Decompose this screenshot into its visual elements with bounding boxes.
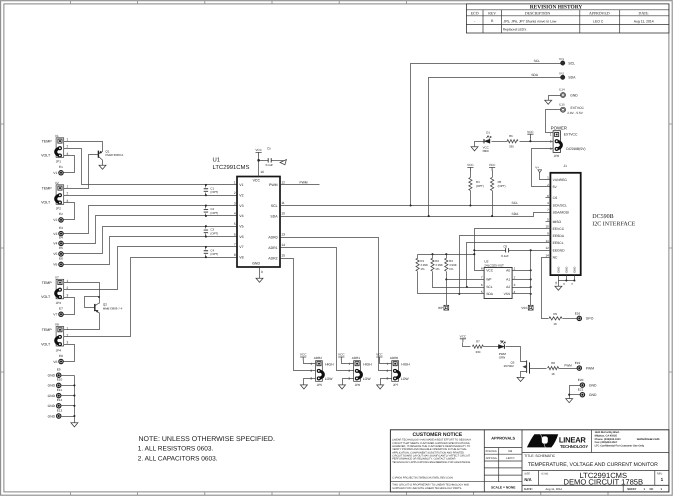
VCC symbol at U1: [255, 148, 262, 156]
wire JP1 pin3 to turret E1: [64, 156, 75, 173]
svg-text:TECHNOLOGY: TECHNOLOGY: [560, 444, 588, 449]
svg-text:TECHNOLOGY APPLICATIONS ENGINE: TECHNOLOGY APPLICATIONS ENGINEERING FOR …: [392, 461, 471, 464]
svg-text:GND: GND: [48, 384, 56, 388]
title block frame: [390, 430, 669, 492]
wire VCC to JP7 pin1: [380, 361, 392, 364]
svg-text:E10: E10: [57, 378, 63, 382]
svg-text:DESCRIPTION: DESCRIPTION: [525, 12, 550, 16]
svg-text:(OPT): (OPT): [210, 190, 218, 194]
svg-text:V1: V1: [55, 134, 59, 138]
wire JP4 pin3 to turret E8: [64, 345, 75, 362]
svg-text:REV.: REV.: [657, 472, 663, 475]
svg-text:VOLT: VOLT: [41, 342, 51, 346]
wire gnd turret to bus: [61, 416, 75, 418]
wire J1 pin14 to R9: [542, 258, 551, 319]
junction SDA riser: [428, 215, 430, 217]
svg-text:WP: WP: [486, 278, 492, 282]
svg-text:VCC: VCC: [338, 353, 345, 357]
svg-text:V4: V4: [53, 242, 57, 246]
svg-text:GND: GND: [252, 262, 260, 266]
svg-text:ADR2: ADR2: [314, 356, 323, 360]
svg-text:16: 16: [260, 170, 264, 174]
junction gnd bus: [73, 405, 75, 407]
svg-text:REVISION HISTORY: REVISION HISTORY: [530, 5, 583, 11]
svg-text:OF: OF: [650, 487, 654, 491]
svg-text:2: 2: [547, 183, 549, 187]
svg-text:E2: E2: [59, 212, 63, 216]
junction Q2 node: [98, 296, 100, 298]
svg-text:U1: U1: [213, 157, 221, 164]
wire R4 to SCL: [470, 191, 472, 206]
svg-text:E1: E1: [59, 165, 63, 169]
svg-text:7: 7: [481, 276, 483, 280]
svg-text:1: 1: [547, 176, 549, 180]
resistor rail R1 R2 R3: [418, 254, 475, 256]
svg-text:SDA: SDA: [531, 73, 539, 77]
svg-text:A0: A0: [506, 269, 510, 273]
wire VCC to R7: [463, 343, 471, 347]
wire WP test point drop: [446, 280, 448, 306]
wire SDA riser to top: [429, 78, 561, 217]
wire JP3 pin1 to Q2 node: [64, 283, 100, 297]
svg-text:E21: E21: [578, 388, 584, 392]
svg-text:2: 2: [234, 191, 236, 195]
svg-text:JP5: JP5: [317, 383, 323, 387]
ground below J1: [555, 286, 562, 290]
svg-text:SDA/MOSI: SDA/MOSI: [553, 210, 569, 214]
turret E9 GND: [48, 368, 61, 378]
svg-text:ADR0: ADR0: [268, 235, 277, 239]
svg-text:SUPPLIED FOR USE WITH LINEAR T: SUPPLIED FOR USE WITH LINEAR TECHNOLOGY …: [392, 487, 462, 490]
svg-text:E20: E20: [578, 378, 584, 382]
VCC at JP6: [338, 353, 345, 361]
svg-text:APP ENG.: APP ENG.: [486, 457, 498, 460]
svg-text:E8: E8: [59, 354, 63, 358]
svg-text:LTC Confidential-For Customer: LTC Confidential-For Customer Use Only: [595, 445, 645, 448]
svg-text:POWER: POWER: [551, 126, 567, 131]
wire/net PWM at U1 pin12: [281, 184, 320, 186]
wire Q1 base from JP2 pin1: [64, 155, 99, 189]
svg-text:D1: D1: [486, 130, 490, 134]
turret E4 (V4 input): [53, 236, 63, 246]
svg-text:2: 2: [67, 145, 69, 149]
capacitor C1 (OPT): [204, 184, 219, 196]
svg-text:TEMP: TEMP: [42, 281, 53, 285]
svg-text:V8: V8: [53, 360, 57, 364]
svg-text:E7: E7: [59, 307, 63, 311]
turret E8: [53, 354, 63, 364]
svg-text:GND: GND: [48, 374, 56, 378]
wire E15 to JP8 pin1: [546, 110, 561, 133]
svg-text:GND: GND: [573, 267, 577, 273]
LED D1 VCC RED: [483, 130, 492, 153]
wire Q2 collector to JP4 pin1: [64, 313, 100, 330]
wire JP7 pin3 to ground: [381, 379, 392, 385]
svg-text:VCC: VCC: [527, 130, 534, 134]
svg-text:1: 1: [550, 133, 552, 137]
wire SDA bus U1 pin10 to J1 pin7: [281, 213, 551, 217]
svg-text:330: 330: [509, 144, 514, 148]
LT logo left swoosh: [527, 434, 545, 447]
wire R5 to SDA: [492, 191, 494, 217]
svg-text:TP2: TP2: [559, 71, 565, 75]
svg-text:LOW: LOW: [325, 377, 334, 381]
svg-text:V3: V3: [53, 232, 57, 236]
svg-text:DATE: DATE: [639, 12, 650, 16]
svg-text:VCC: VCC: [486, 269, 494, 273]
svg-text:JP4: JP4: [56, 348, 62, 352]
wire VSS column: [530, 251, 532, 306]
turret E10 GND: [48, 378, 63, 388]
wire D1 to R6: [492, 141, 508, 143]
svg-text:MISO: MISO: [553, 220, 562, 224]
capacitor C5 0.1uF: [266, 146, 274, 167]
wire JP2 pin3 to turret E2: [64, 203, 75, 220]
ground below Q1: [99, 165, 106, 169]
svg-text:(OPT): (OPT): [210, 231, 218, 235]
wire JP8 pin3 to J1 pin2: [532, 149, 554, 187]
wire JP1 pin2 to U1 V1: [64, 149, 238, 185]
note text: [138, 436, 275, 463]
svg-text:E9: E9: [57, 368, 61, 372]
svg-text:1: 1: [234, 181, 236, 185]
svg-text:SDA: SDA: [270, 214, 278, 218]
svg-text:V5: V5: [239, 225, 243, 229]
svg-text:RED: RED: [483, 149, 489, 153]
wire ADR1 net: [281, 248, 354, 371]
svg-text:IC NO.: IC NO.: [541, 472, 549, 475]
svg-text:8: 8: [481, 266, 483, 270]
svg-text:8: 8: [234, 253, 236, 257]
revision history table: [466, 4, 669, 33]
svg-text:LOW: LOW: [401, 377, 410, 381]
svg-text:VOLT: VOLT: [41, 295, 51, 299]
svg-text:V+: V+: [535, 166, 539, 170]
svg-text:V2: V2: [55, 181, 59, 185]
wire JP3 pin2 to U1 V7: [64, 247, 238, 290]
svg-text:0.1uF: 0.1uF: [501, 254, 509, 258]
linear technology logo: [527, 434, 588, 449]
svg-text:GRN: GRN: [499, 356, 505, 360]
transistor Q2 MMBT3906-7-F: [85, 297, 123, 313]
wire V3 net to U1: [64, 206, 238, 234]
title section: [524, 454, 663, 491]
svg-text:(OPT): (OPT): [498, 184, 506, 188]
ground at C5: [280, 160, 288, 167]
svg-text:JP7: JP7: [393, 383, 399, 387]
svg-text:SCL: SCL: [512, 201, 519, 205]
svg-text:SHEET: SHEET: [627, 487, 637, 491]
svg-text:E4: E4: [59, 236, 63, 240]
wire R2 to U2 SCL line: [433, 272, 485, 288]
connector JP4: [41, 323, 68, 353]
turret E16 GPO: [575, 311, 594, 320]
transistor Q1 PMMT3906TA: [98, 150, 123, 166]
svg-text:VCC: VCC: [253, 179, 261, 183]
svg-text:2. ALL CAPACITORS 0603.: 2. ALL CAPACITORS 0603.: [138, 456, 218, 463]
svg-text:6: 6: [234, 232, 236, 236]
svg-text:V1: V1: [239, 183, 243, 187]
J1 pin stubs CS / MISO: [546, 197, 551, 199]
wires U2 right pins to VSS column: [513, 270, 531, 272]
svg-text:GND: GND: [48, 414, 56, 418]
svg-text:SCL: SCL: [534, 59, 541, 63]
svg-text:V8: V8: [239, 256, 243, 260]
connector J1 DC590B: [545, 164, 580, 275]
svg-text:7: 7: [234, 243, 236, 247]
svg-text:APPROVED: APPROVED: [589, 12, 610, 16]
svg-text:V3: V3: [239, 204, 243, 208]
svg-text:PMMT3906TA: PMMT3906TA: [105, 153, 123, 157]
op-amp U2 24LC025-VST: [481, 260, 516, 299]
connector JP8 POWER: [550, 126, 586, 158]
svg-text:EEGND: EEGND: [553, 248, 565, 252]
svg-text:5: 5: [547, 218, 549, 222]
svg-text:J1: J1: [564, 164, 568, 168]
wire E14 to ground: [549, 96, 561, 101]
turret E11 GND: [48, 388, 63, 398]
svg-text:V4: V4: [239, 214, 243, 218]
ground at D1: [471, 147, 478, 151]
svg-text:(OPT): (OPT): [210, 252, 218, 256]
customer notice: [392, 432, 471, 490]
wire Q3 gate to R8: [530, 368, 547, 370]
svg-text:N/A: N/A: [524, 477, 531, 482]
svg-text:SDA: SDA: [512, 212, 520, 216]
svg-text:4: 4: [234, 212, 236, 216]
svg-text:TEMP: TEMP: [42, 140, 53, 144]
svg-text:EXTVCC: EXTVCC: [571, 106, 585, 110]
wire JP6 pin3 to ground: [343, 379, 354, 385]
svg-text:GND: GND: [48, 404, 56, 408]
wire V4 net to U1: [64, 216, 238, 244]
svg-text:(OPT): (OPT): [210, 211, 218, 215]
wire R3 to U2 WP line: [447, 272, 485, 280]
wire R8 to E19 with PWM net label: [559, 368, 578, 370]
LT logo right swoosh: [541, 434, 558, 447]
wire gnd turret to bus: [61, 405, 75, 407]
resistor R7 330: [472, 340, 483, 354]
title block address: [595, 431, 660, 448]
svg-text:V7: V7: [53, 313, 57, 317]
svg-text:VSS: VSS: [504, 292, 511, 296]
turret E13 GND: [48, 408, 63, 418]
svg-text:C5: C5: [267, 146, 271, 150]
svg-text:1: 1: [67, 326, 69, 330]
svg-text:THIS CIRCUIT IS PROPRIETARY TO: THIS CIRCUIT IS PROPRIETARY TO LINEAR TE…: [392, 483, 469, 486]
wire R1 to U2 SDA line: [418, 272, 485, 294]
svg-text:REV: REV: [488, 12, 496, 16]
svg-text:JP1: JP1: [56, 160, 62, 164]
svg-text:5: 5: [481, 290, 483, 294]
svg-text:EESDA: EESDA: [553, 234, 565, 238]
capacitor C4 (OPT): [204, 246, 219, 258]
LT logo white hole: [542, 436, 548, 443]
svg-text:E3: E3: [59, 226, 63, 230]
svg-text:WP: WP: [438, 306, 443, 310]
wire J1 gnd pins to ground: [559, 276, 575, 281]
VCC at JP5: [300, 353, 307, 361]
VCC at R4: [467, 163, 474, 171]
resistor R1 4.99K 1%: [416, 255, 428, 272]
resistor R5 (OPT): [491, 171, 506, 191]
svg-text:E14: E14: [559, 88, 565, 92]
svg-text:3: 3: [67, 294, 69, 298]
svg-text:SDA: SDA: [486, 292, 494, 296]
svg-text:1K: 1K: [553, 322, 557, 326]
svg-text:9: 9: [261, 270, 263, 274]
svg-text:Replaced LED's: Replaced LED's: [503, 28, 527, 32]
turret E7: [53, 307, 63, 317]
svg-text:R7: R7: [476, 340, 480, 344]
svg-text:V5: V5: [53, 252, 57, 256]
svg-text:GND: GND: [589, 393, 597, 397]
svg-text:13: 13: [281, 233, 285, 237]
svg-text:2.9V - 5.5V: 2.9V - 5.5V: [567, 111, 583, 115]
wire VCC junction to JP8 pin2: [520, 141, 554, 143]
svg-text:12: 12: [281, 180, 285, 184]
svg-text:Aug 11, 2014: Aug 11, 2014: [546, 487, 563, 491]
junction gnd bus: [73, 415, 75, 417]
svg-text:SDA: SDA: [568, 76, 576, 80]
junction gnd bus: [73, 384, 75, 386]
ground below U1: [256, 278, 263, 282]
svg-text:E19: E19: [575, 361, 581, 365]
svg-text:PWM: PWM: [586, 366, 594, 370]
svg-text:V7: V7: [239, 245, 243, 249]
svg-text:14: 14: [281, 243, 285, 247]
svg-text:7: 7: [547, 208, 549, 212]
svg-text:V8: V8: [55, 323, 59, 327]
svg-text:24LC025-VST: 24LC025-VST: [484, 263, 504, 267]
svg-text:1: 1: [661, 477, 664, 482]
capacitor C6 0.1uF: [475, 245, 531, 258]
svg-text:3: 3: [67, 341, 69, 345]
svg-text:6: 6: [481, 283, 483, 287]
junction SCL riser: [410, 204, 412, 206]
approvals block: [486, 436, 517, 490]
svg-text:VOLT: VOLT: [41, 154, 51, 158]
svg-text:12: 12: [545, 246, 549, 250]
svg-text:C6: C6: [503, 245, 507, 249]
ground at E14: [545, 100, 552, 104]
wire V6 net to U1: [64, 237, 238, 265]
svg-text:1: 1: [67, 185, 69, 189]
wire U1 GND pin9 to ground: [259, 268, 261, 279]
svg-text:2: 2: [387, 369, 389, 373]
svg-text:1: 1: [67, 138, 69, 142]
svg-text:VCC: VCC: [489, 163, 496, 167]
svg-text:DC590B: DC590B: [592, 214, 613, 220]
wire EESDA from J1 pin9: [460, 236, 551, 294]
svg-text:E13: E13: [57, 408, 63, 412]
VCC at R5: [489, 163, 496, 171]
wire JP1 pin1 to Q1 emitter: [64, 142, 103, 151]
svg-text:LOW: LOW: [363, 377, 372, 381]
svg-text:EEVCC: EEVCC: [553, 227, 565, 231]
svg-text:330: 330: [475, 350, 480, 354]
turret E6 (V6 input): [53, 257, 63, 267]
svg-text:MMBT3906-7-F: MMBT3906-7-F: [103, 307, 123, 311]
svg-text:R8: R8: [551, 361, 555, 365]
wire gnd turret to bus: [61, 395, 75, 397]
svg-text:A1: A1: [506, 278, 510, 282]
svg-text:E15: E15: [559, 102, 565, 106]
svg-text:HIGH: HIGH: [363, 362, 372, 366]
svg-text:ADR2: ADR2: [268, 256, 277, 260]
jumper JP7 ADR0: [387, 356, 411, 387]
VCC at R7: [460, 334, 467, 342]
svg-text:VUNREG: VUNREG: [553, 178, 568, 182]
svg-text:SIZE: SIZE: [524, 472, 530, 475]
connector JP2: [41, 181, 68, 211]
svg-text:VCC: VCC: [300, 353, 307, 357]
test point TP1 SCL: [534, 57, 576, 65]
svg-text:VOLT: VOLT: [41, 201, 51, 205]
resistor R2 4.99K 1%: [431, 255, 443, 272]
transistor Q3 2N7002: [504, 360, 530, 377]
wire V+ to J1 pin1: [540, 173, 551, 180]
connector JP1: [41, 134, 68, 164]
svg-text:0.1uF: 0.1uF: [266, 163, 274, 167]
wire EESCL from J1 pin11: [467, 243, 551, 288]
resistor R6 330: [507, 134, 518, 149]
svg-text:HIGH: HIGH: [325, 362, 334, 366]
ground at E20/E21: [566, 399, 573, 403]
svg-text:TEMPERATURE, VOLTAGE AND CURRE: TEMPERATURE, VOLTAGE AND CURRENT MONITOR: [528, 462, 658, 468]
turret E3 (V3 input): [53, 226, 63, 236]
svg-text:PWM: PWM: [300, 181, 308, 185]
svg-text:15: 15: [281, 254, 285, 258]
svg-text:PCB DES.: PCB DES.: [486, 450, 498, 453]
svg-text:GND: GND: [570, 93, 578, 97]
wire ADR0 net: [281, 238, 392, 371]
wire VCC to U1 pin16 and C5: [259, 156, 269, 161]
svg-text:V2: V2: [239, 194, 243, 198]
svg-text:V6: V6: [239, 235, 243, 239]
turret E5 (V5 input): [53, 246, 63, 256]
svg-text:V1: V1: [53, 171, 57, 175]
svg-text:JP8: JP8: [554, 154, 560, 158]
svg-text:11: 11: [281, 201, 285, 205]
wire D1 anode to ground: [475, 142, 484, 147]
VCC at JP7: [376, 353, 383, 361]
resistor R4 (OPT): [469, 171, 484, 191]
svg-text:VCC: VCC: [460, 334, 467, 338]
svg-text:1%: 1%: [420, 267, 425, 271]
ground at Q3: [517, 377, 524, 381]
svg-text:D2: D2: [500, 339, 504, 343]
svg-text:A2: A2: [506, 285, 510, 289]
op-amp U1 LTC2991CMS: [213, 157, 286, 274]
wire gnd turret to bus: [61, 385, 75, 387]
gnd bus wire: [74, 376, 76, 423]
wire JP3 pin3 to turret E7: [64, 298, 75, 315]
junction VCC/C5: [257, 159, 260, 162]
svg-text:3: 3: [550, 147, 552, 151]
svg-text:(OPT): (OPT): [476, 184, 484, 188]
svg-text:DEMO CIRCUIT 1785B: DEMO CIRCUIT 1785B: [563, 478, 643, 487]
svg-text:ADR0: ADR0: [390, 356, 399, 360]
svg-text:APPROVALS: APPROVALS: [491, 436, 515, 441]
wire V5 net to U1: [64, 227, 238, 254]
svg-text:VCC: VCC: [376, 353, 383, 357]
svg-text:Aug 11, 2014: Aug 11, 2014: [634, 19, 654, 23]
test point WP: [438, 305, 449, 310]
turret E21 GND: [578, 388, 597, 397]
junction gnd bus: [73, 395, 75, 397]
svg-text:TITLE: SCHEMATIC: TITLE: SCHEMATIC: [524, 454, 555, 458]
